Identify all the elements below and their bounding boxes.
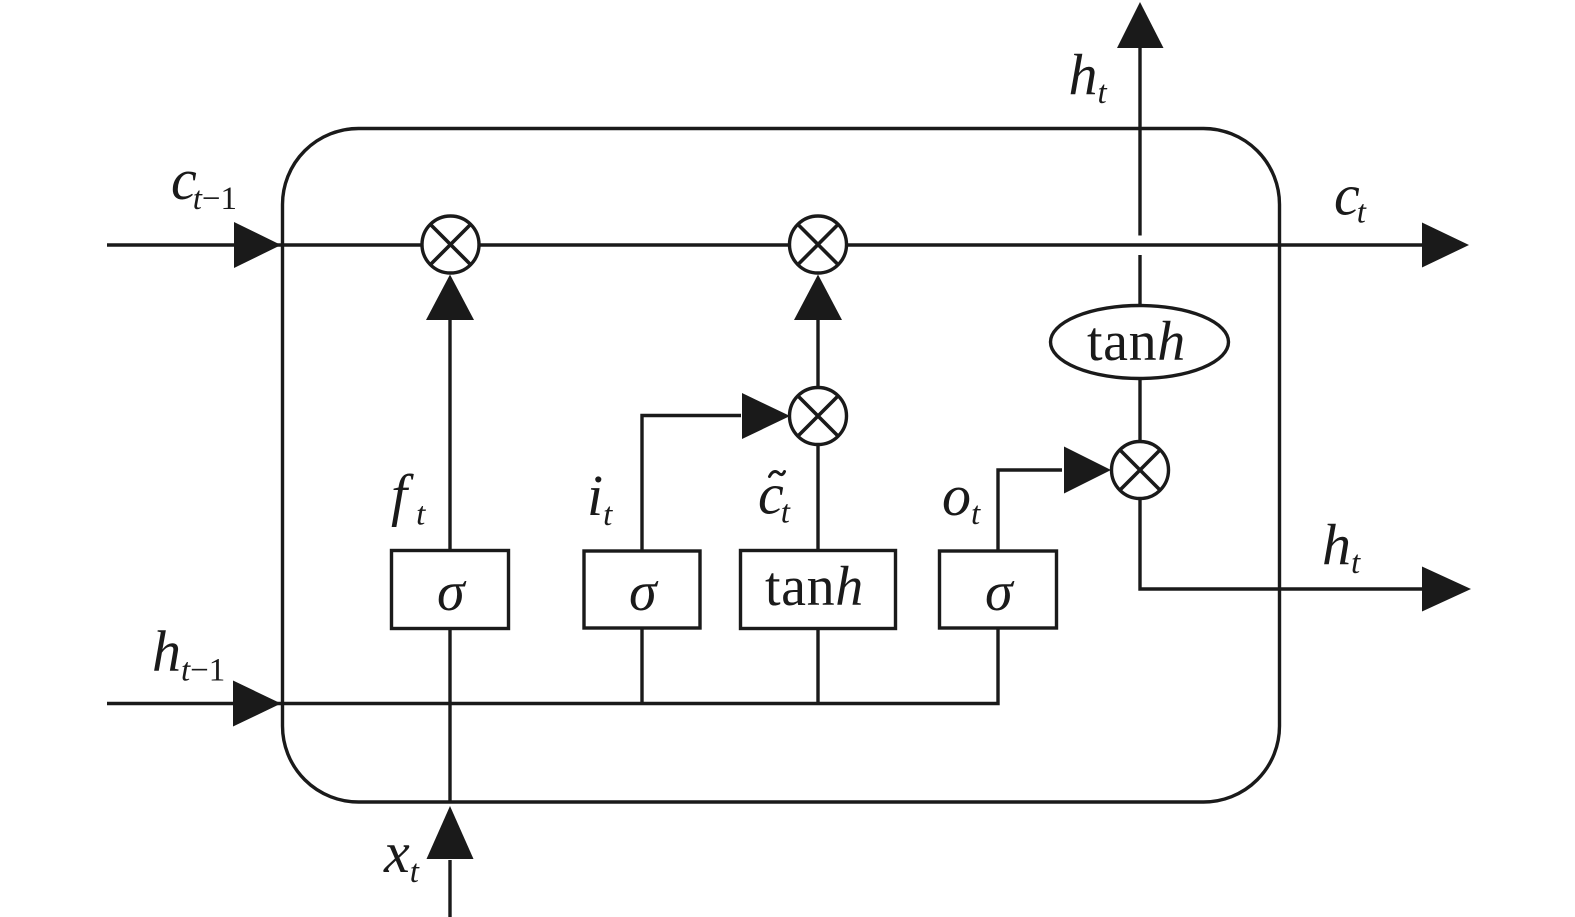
wire: M4 down and right out as h_t xyxy=(1140,499,1424,590)
wire: x_t vertical through forget gate xyxy=(448,629,451,803)
svg-text:ht: ht xyxy=(1322,512,1361,581)
arrowhead: candidate up into M2 xyxy=(794,275,842,321)
arrowhead: c_t-1 into cell xyxy=(234,222,281,268)
wire: h_t vertical segment c line to tanh ellipse xyxy=(1138,255,1141,306)
svg-text:ot: ot xyxy=(942,463,981,532)
arrowhead: h_t output right xyxy=(1422,567,1471,612)
arrowhead: forget up into M1 xyxy=(426,275,474,321)
svg-text:ct: ct xyxy=(1334,163,1367,231)
wire: forget gate up to multiplier M1 xyxy=(448,318,451,551)
svg-text:ft: ft xyxy=(391,463,426,533)
wire: output gate o up and right to multiplier M4 xyxy=(998,470,1062,551)
wire: input gate i up and right to multiplier M3 xyxy=(642,416,741,551)
wire: tanh ellipse down to multiplier M4 xyxy=(1138,379,1141,442)
wire: h_t-1 input line (horizontal bottom) xyxy=(107,628,998,704)
wire: h_t vertical top segment above c line xyxy=(1138,48,1141,236)
svg-text:σ: σ xyxy=(629,561,659,623)
svg-text:xt: xt xyxy=(383,820,420,890)
svg-text:σ: σ xyxy=(985,561,1015,623)
svg-text:tanh: tanh xyxy=(1087,311,1186,373)
multiplier M4 (output) circle-X xyxy=(1112,442,1169,499)
X of M3 xyxy=(798,396,838,436)
wire: cell state line c (horizontal) xyxy=(107,243,1424,246)
gate box sigma2 (input) xyxy=(584,551,700,628)
multiplier M1 (forget) circle-X xyxy=(422,216,479,273)
arrowhead: x_t up into cell xyxy=(427,806,474,859)
LSTM cell body rounded rectangle xyxy=(283,129,1280,803)
arrowhead: c_t output right xyxy=(1422,223,1469,268)
tilde accent over candidate c xyxy=(770,472,785,477)
arrowhead: input gate right into M3 xyxy=(742,393,790,439)
wire: below sigma2 box xyxy=(640,628,643,704)
svg-text:ht: ht xyxy=(1069,42,1108,111)
arrowhead: output gate right into M4 xyxy=(1064,447,1111,494)
multiplier M2 (cell update) circle-X xyxy=(790,216,847,273)
multiplier M3 (input x candidate) circle-X xyxy=(790,388,847,445)
arrowhead: h_t-1 into cell xyxy=(233,681,281,727)
X of M1 xyxy=(430,224,470,264)
svg-text:ct−1: ct−1 xyxy=(171,147,237,217)
svg-text:it: it xyxy=(587,463,613,533)
wire: candidate tanh box up to multiplier M3 xyxy=(816,445,819,551)
wire: x_t input below box xyxy=(448,860,451,917)
gate box sigma1 (forget) xyxy=(392,551,509,629)
wire: below tanh box xyxy=(816,629,819,704)
svg-text:tanh: tanh xyxy=(765,556,864,618)
tanh output ellipse xyxy=(1051,306,1229,379)
X of M2 xyxy=(798,224,838,264)
wire: multiplier M3 up to arrow into M2 xyxy=(816,318,819,388)
gate box tanh (candidate) xyxy=(741,551,896,629)
X of M4 xyxy=(1120,450,1160,490)
svg-text:σ: σ xyxy=(437,561,467,623)
arrowhead: h_t up at top xyxy=(1117,2,1164,48)
svg-text:ht−1: ht−1 xyxy=(152,619,225,689)
gate box sigma3 (output) xyxy=(940,551,1057,628)
